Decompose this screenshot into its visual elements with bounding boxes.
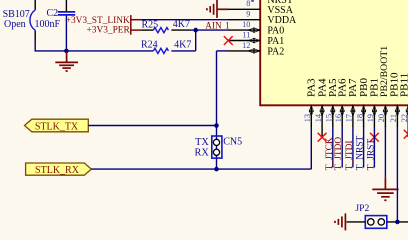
pin 9 VDDA — [228, 10, 297, 27]
MCU U5 body — [260, 0, 408, 105]
svg-text:21: 21 — [389, 114, 398, 122]
svg-text:+3V3_PER: +3V3_PER — [86, 25, 130, 35]
svg-text:22: 22 — [400, 114, 408, 122]
svg-text:14: 14 — [314, 113, 323, 122]
svg-text:8: 8 — [246, 0, 250, 8]
JTAG stub wires pins 15-19 — [333, 127, 375, 168]
no-connect X on pin 11 — [224, 36, 233, 45]
svg-text:10: 10 — [242, 20, 250, 29]
svg-text:PA2: PA2 — [267, 46, 284, 57]
pin 8 VSSA — [228, 0, 294, 16]
svg-text:T_NRST: T_NRST — [356, 136, 366, 171]
wire pin 21 down to JP2 — [396, 127, 398, 222]
svg-text:VSSA: VSSA — [267, 5, 293, 16]
junction JP2 / PB10 wire — [395, 220, 400, 225]
svg-text:RX: RX — [194, 148, 209, 159]
svg-text:AIN: AIN — [205, 21, 222, 31]
svg-text:JP2: JP2 — [355, 203, 369, 214]
net label AIN 1 — [205, 21, 230, 31]
svg-text:R25: R25 — [142, 20, 159, 31]
svg-text:20: 20 — [377, 114, 386, 122]
svg-text:T_JTDO: T_JTDO — [334, 137, 344, 171]
JP2 right pin — [387, 221, 408, 223]
svg-text:100nF: 100nF — [35, 19, 61, 30]
svg-text:STLK_RX: STLK_RX — [35, 165, 80, 176]
ground at JP2 (left-pointing) — [335, 213, 345, 230]
svg-text:16: 16 — [334, 114, 343, 122]
svg-text:+3V3_ST_LINK: +3V3_ST_LINK — [66, 16, 130, 26]
svg-text:PA1: PA1 — [267, 36, 284, 47]
svg-text:Open: Open — [4, 19, 26, 30]
port STLK_TX — [25, 119, 89, 132]
bottom pin arrows — [309, 105, 408, 116]
svg-text:4K7: 4K7 — [174, 40, 191, 51]
svg-text:CN5: CN5 — [223, 136, 242, 147]
wire +3V3_ST_LINK to VDDA pin 9 — [142, 19, 228, 21]
wire ground rail horizontal — [35, 50, 154, 52]
svg-text:VDDA: VDDA — [267, 15, 297, 26]
wire pin 20 to ground — [384, 127, 386, 178]
pin 11 PA1 — [228, 30, 284, 47]
svg-text:12: 12 — [242, 41, 250, 50]
wire PA2 pin 12 horizontal — [217, 50, 229, 52]
bottom pin numbers 13-22 — [303, 113, 408, 122]
wire STLK_TX to CN5 — [88, 125, 216, 127]
capacitor C2 top lead — [65, 0, 67, 11]
svg-text:18: 18 — [355, 114, 364, 122]
pin 7 number tick (clipped) — [251, 0, 254, 2]
svg-text:SB107: SB107 — [3, 9, 30, 20]
svg-text:T_JTDI: T_JTDI — [345, 141, 355, 171]
svg-text:9: 9 — [246, 10, 250, 19]
svg-text:R24: R24 — [141, 40, 158, 51]
pin 10 PA0 — [228, 20, 284, 37]
wire STLK_RX to PA3 — [91, 168, 311, 170]
svg-text:15: 15 — [325, 114, 334, 122]
wire R24 to junction — [171, 50, 195, 52]
jumper JP2 — [355, 203, 386, 228]
power bar +3V3 (net tie) — [131, 15, 142, 35]
bottom pins of MCU — [311, 105, 408, 137]
wire up to PA3 pin 13 — [310, 127, 312, 170]
resistor R25 leads — [142, 29, 191, 31]
svg-text:13: 13 — [303, 114, 312, 122]
ground symbol center — [55, 52, 78, 72]
port STLK_RX — [26, 163, 92, 176]
bottom pin names PA3..PB11 — [306, 46, 408, 97]
solder bridge SB107 open arc — [30, 10, 35, 30]
svg-text:T_JRST: T_JRST — [366, 139, 376, 171]
capacitor C2 bottom lead wire — [65, 16, 67, 51]
JP2 left pin to ground — [347, 221, 366, 223]
junction at R24/R25/PA0 — [193, 28, 198, 33]
junction at C2 / ground — [64, 49, 69, 54]
connector CN5 — [194, 136, 242, 159]
junction STLK_RX / CN5 — [214, 167, 219, 172]
svg-text:17: 17 — [345, 114, 354, 122]
svg-text:C2: C2 — [47, 8, 59, 19]
pin 12 PA2 — [228, 41, 284, 58]
svg-text:TX: TX — [195, 137, 209, 148]
svg-text:PA0: PA0 — [267, 26, 284, 37]
svg-text:PB11: PB11 — [398, 73, 408, 97]
svg-text:19: 19 — [366, 114, 375, 122]
ground at pin 8 (left-pointing) — [207, 0, 229, 18]
wire R25 to PA0 pin 10 — [191, 29, 229, 31]
no-connect X on pin 19 — [370, 133, 379, 142]
svg-text:4K7: 4K7 — [173, 19, 190, 30]
solder bridge SB107 pins (vertical line with gap) — [34, 0, 36, 41]
svg-text:1: 1 — [225, 21, 230, 31]
junction STLK_TX / CN5 — [214, 123, 219, 128]
wire vertical R24 up to junction — [195, 30, 197, 51]
resistor R25 zigzag — [153, 28, 168, 33]
wire PA2 down to CN5 — [216, 51, 218, 169]
svg-text:11: 11 — [242, 30, 250, 39]
no-connect X on pin 22 (clipped) — [404, 130, 408, 139]
ground symbol at pin 20 — [372, 178, 398, 201]
no-connect X on pin 14 — [318, 133, 327, 142]
svg-text:STLK_TX: STLK_TX — [35, 121, 79, 132]
wire from SB107 down to ground rail — [34, 41, 36, 51]
resistor R24 zigzag — [153, 48, 168, 53]
capacitor C2 plates — [58, 12, 75, 15]
